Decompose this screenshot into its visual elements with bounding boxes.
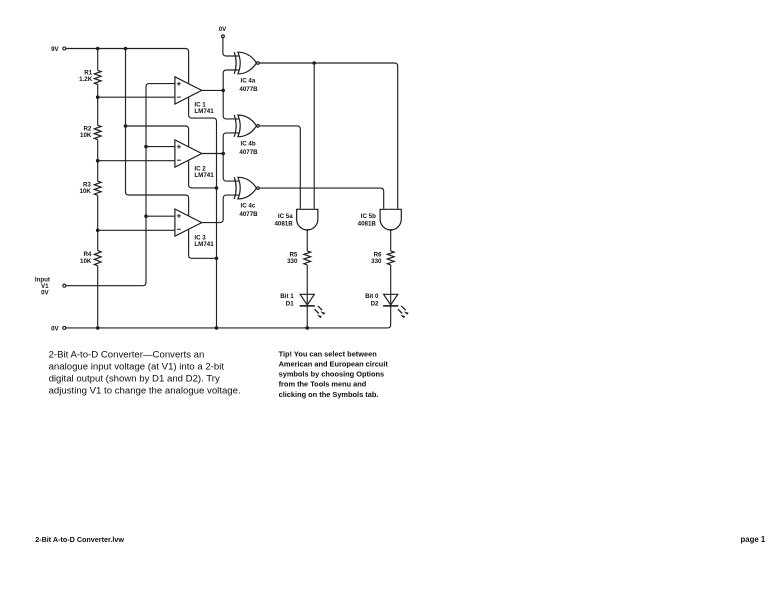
node 9V branch to IC2 V+ junction (124, 124, 128, 128)
node IC2 output junction (221, 152, 225, 156)
svg-text:4081B: 4081B (274, 221, 293, 228)
wire IC1 output to IC4a lower input (223, 70, 239, 90)
node A divider tap junction (96, 95, 100, 99)
xnor gate IC4b 4077B (234, 115, 259, 137)
resistor R2 10K (94, 125, 101, 139)
wire 9V rail to IC1 V+ pin (66, 49, 189, 84)
wire IC1 V- pin to 0V collector line (189, 97, 217, 328)
svg-text:IC 5b: IC 5b (361, 213, 376, 220)
wire IC4a output branch down to IC5a right input (313, 63, 315, 209)
op-amp IC2 LM741 triangle (175, 140, 202, 167)
svg-text:American and European circuit: American and European circuit (279, 360, 389, 369)
wire IC2 output to IC4c upper input (223, 154, 239, 182)
svg-text:LM741: LM741 (194, 108, 214, 115)
wire IC4c output to IC5b left input (259, 188, 384, 209)
svg-text:LM741: LM741 (194, 172, 214, 179)
node 9V rail x 9V branch junction (124, 47, 128, 51)
svg-text:analogue input voltage (at V1): analogue input voltage (at V1) into a 2-… (49, 362, 225, 373)
terminal 9V (63, 47, 66, 50)
op-amp IC1 plus input marker (177, 82, 181, 86)
xnor gate IC4a 4077B (234, 52, 259, 74)
svg-text:clicking on the Symbols tab.: clicking on the Symbols tab. (279, 390, 379, 399)
wire 9V branch down to IC3 V+ pin (126, 49, 189, 217)
node V1 line to IC2 input junction (144, 145, 148, 149)
wire node A to IC1 inverting input (98, 96, 175, 98)
wire 0V top terminal to IC4a upper input (223, 38, 240, 56)
xnor gate IC4c 4077B (234, 177, 259, 199)
svg-text:1.2K: 1.2K (79, 76, 93, 83)
op-amp IC3 LM741 triangle (175, 209, 202, 236)
node divider bottom to 0V rail junction (96, 326, 100, 330)
svg-text:4081B: 4081B (358, 221, 377, 228)
wire R5 to LED D1 anode (306, 265, 308, 306)
op-amp IC1 minus input marker (177, 96, 181, 98)
wire divider segment 9V to R1 (97, 49, 99, 71)
svg-text:4077B: 4077B (239, 149, 258, 156)
terminal 0V top (222, 35, 225, 38)
svg-text:10K: 10K (80, 132, 92, 139)
and gate IC5b 4081B (380, 209, 401, 231)
svg-text:digital output (shown by D1 an: digital output (shown by D1 and D2). Try (49, 374, 220, 385)
svg-text:4077B: 4077B (239, 86, 258, 93)
svg-text:IC 4a: IC 4a (241, 78, 256, 85)
node V- collector x IC3 V- junction (215, 257, 219, 261)
wire divider segment R2 to R3 (97, 140, 99, 182)
wire IC3 V- pin to 0V collector line (189, 229, 217, 258)
op-amp IC3 plus input marker (177, 214, 181, 218)
svg-text:page 1: page 1 (741, 535, 766, 544)
wire IC1 output (202, 89, 224, 91)
node B divider tap junction (96, 159, 100, 163)
svg-text:0V: 0V (219, 26, 227, 33)
wire IC4a output across to IC5b right input (259, 63, 398, 209)
node C divider tap junction (96, 229, 100, 233)
wire IC5a output to R5 (306, 231, 308, 251)
node V1 line to IC3 input junction (144, 214, 148, 218)
wire divider segment R1 to R2 (97, 84, 99, 125)
svg-text:Tip! You can select between: Tip! You can select between (279, 349, 378, 358)
svg-text:symbols by choosing Options: symbols by choosing Options (279, 370, 385, 379)
svg-text:2-Bit A-to-D Converter—Convert: 2-Bit A-to-D Converter—Converts an (49, 350, 205, 361)
and gate IC5a 4081B (297, 209, 318, 231)
wire IC3 output to IC4c lower input (202, 195, 240, 223)
svg-text:IC 5a: IC 5a (278, 213, 293, 220)
wire R6 to LED D2 anode (390, 265, 392, 306)
LED D1 Bit 1 (300, 294, 326, 318)
wire IC2 output to IC4b lower input (223, 133, 239, 154)
svg-text:IC 4b: IC 4b (241, 141, 256, 148)
svg-text:10K: 10K (80, 258, 92, 265)
op-amp IC2 minus input marker (177, 159, 181, 161)
description paragraph (49, 350, 241, 397)
op-amp IC1 LM741 triangle (175, 77, 202, 104)
wire IC2 output (202, 153, 224, 155)
svg-text:330: 330 (371, 258, 382, 265)
wire node B to IC2 inverting input (98, 160, 175, 162)
wire divider segment R4 to 0V rail (97, 266, 99, 328)
svg-text:D2: D2 (371, 301, 379, 308)
resistor R5 330 (304, 251, 311, 265)
resistor R6 330 (387, 251, 394, 265)
svg-text:330: 330 (287, 258, 298, 265)
node V- collector x IC2 V- junction (215, 186, 219, 190)
op-amp IC2 plus input marker (177, 145, 181, 149)
node V- collector to 0V rail junction (215, 326, 219, 330)
svg-text:0V: 0V (41, 290, 49, 297)
terminal 0V bottom (63, 326, 66, 329)
svg-text:0V: 0V (51, 325, 59, 332)
op-amp IC3 minus input marker (177, 228, 181, 230)
wire V1 line to IC2 non-inverting input (146, 146, 175, 148)
wire IC4b output to IC5a left input (259, 126, 300, 209)
node 9V rail x divider junction (96, 47, 100, 51)
svg-text:Bit 0: Bit 0 (365, 293, 379, 300)
node D1 chain to 0V rail junction (305, 326, 309, 330)
wire IC1 output to IC4b upper input (223, 90, 239, 119)
svg-text:IC 4c: IC 4c (241, 203, 256, 210)
wire 9V branch tee to IC2 V+ pin (126, 126, 189, 147)
svg-text:adjusting V1 to change the ana: adjusting V1 to change the analogue volt… (49, 386, 241, 397)
LED D2 Bit 0 (383, 294, 409, 318)
svg-text:2-Bit A-to-D Converter.lvw: 2-Bit A-to-D Converter.lvw (35, 535, 124, 544)
svg-text:from the Tools menu and: from the Tools menu and (279, 380, 367, 389)
resistor R3 10K (94, 181, 101, 195)
svg-text:Bit 1: Bit 1 (280, 293, 294, 300)
terminal Input V1 (63, 284, 66, 287)
resistor R4 10K (94, 251, 101, 266)
wire LED D1 cathode to 0V rail (306, 306, 308, 328)
wire V1 line to IC3 non-inverting input (146, 215, 175, 217)
resistor R1 1.2K (94, 70, 101, 84)
wire IC2 V- pin to 0V collector line (189, 160, 217, 188)
wire 0V rail (66, 306, 391, 328)
wire input V1 terminal up to IC1 non-inverting input (66, 84, 175, 286)
svg-text:9V: 9V (51, 46, 59, 53)
svg-text:4077B: 4077B (239, 211, 258, 218)
node IC1 output junction (221, 89, 225, 93)
svg-text:LM741: LM741 (194, 241, 214, 248)
wire IC5b output to R6 (390, 231, 392, 251)
wire divider segment R3 to R4 (97, 195, 99, 250)
wire node C to IC3 inverting input (98, 229, 175, 231)
tip paragraph (279, 349, 389, 398)
svg-text:10K: 10K (80, 188, 92, 195)
node IC4a output branch junction (312, 61, 316, 65)
svg-text:D1: D1 (286, 301, 294, 308)
